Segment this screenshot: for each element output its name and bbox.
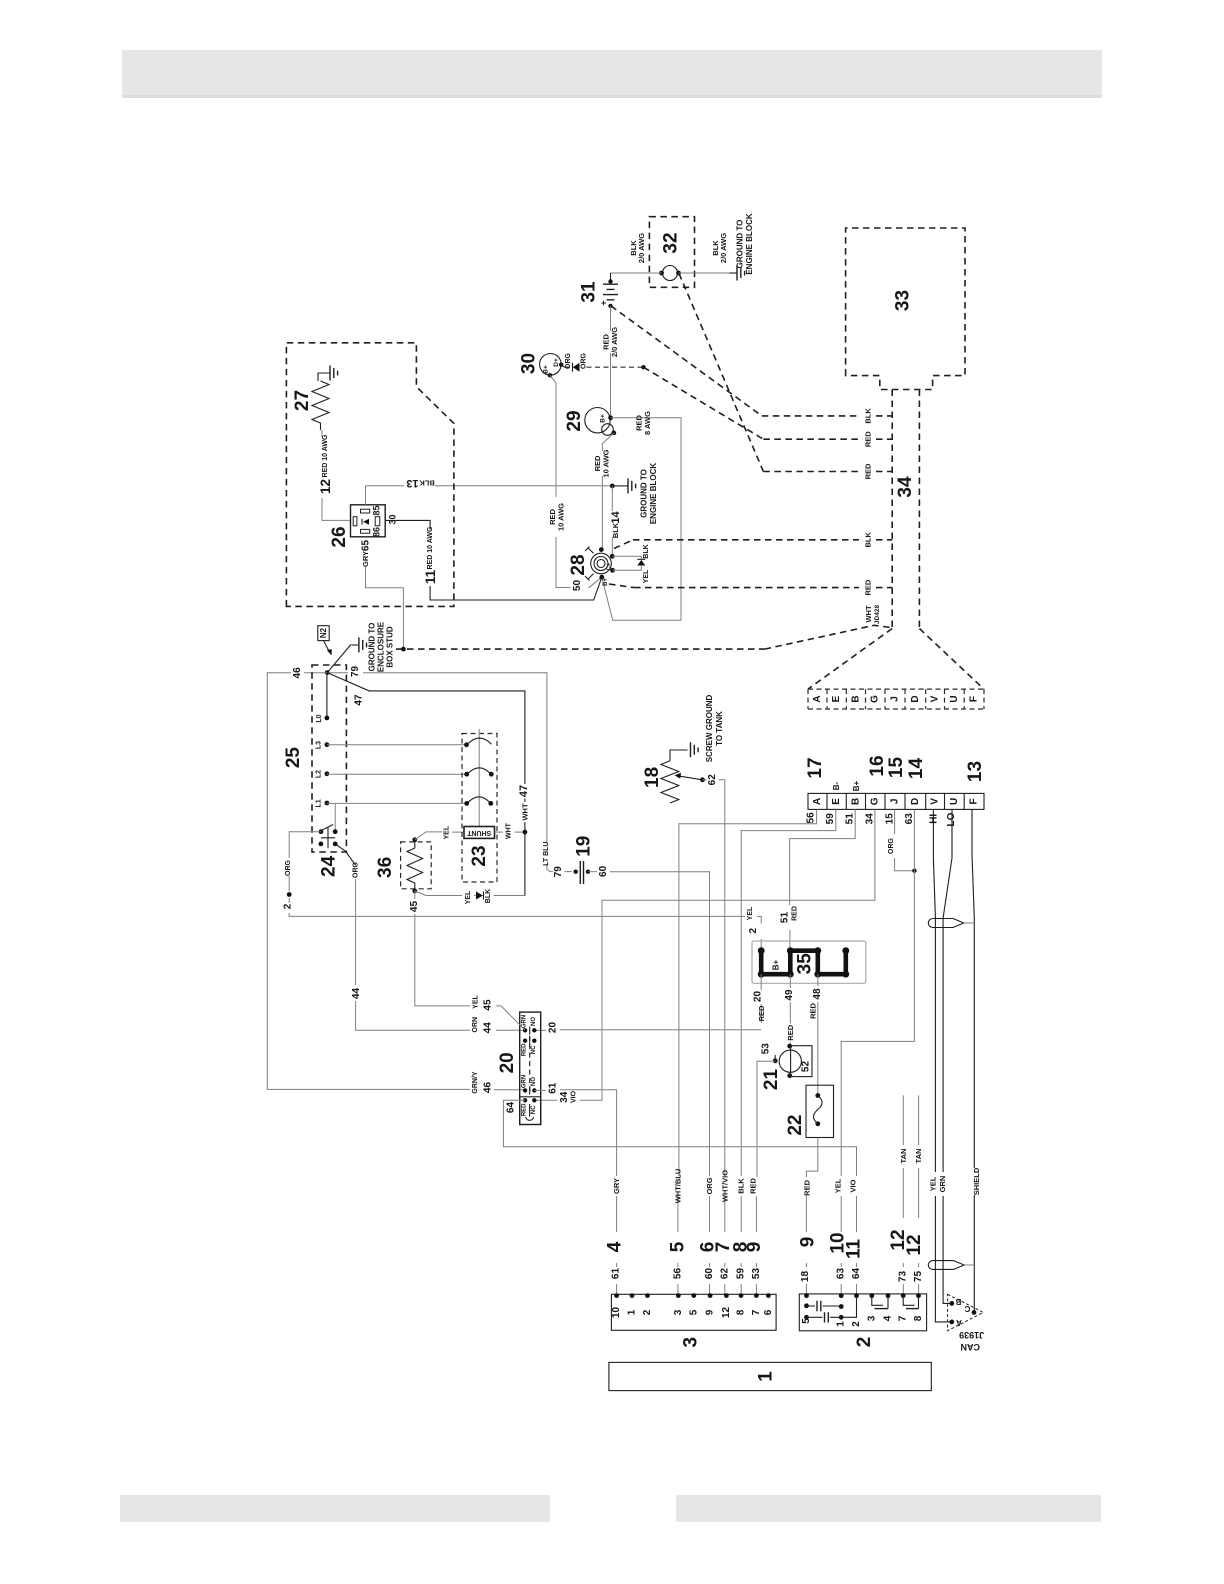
- wire BLK 14 (ground to starter): [610, 486, 622, 556]
- svg-text:18: 18: [642, 767, 663, 788]
- svg-text:RED: RED: [864, 431, 873, 447]
- resistor 36 (dashed box): [375, 837, 431, 893]
- resistor 27 (glow plug): [292, 373, 330, 430]
- wire harness dashed RED (32 to 34): [679, 274, 892, 480]
- svg-text:TAN: TAN: [914, 1149, 923, 1164]
- svg-text:7: 7: [713, 1242, 734, 1253]
- wire 12 RED 10 AWG (27 to relay 26): [318, 430, 351, 520]
- component 32 dashed box: [649, 217, 694, 288]
- ground (enclosure box stud): [352, 621, 395, 672]
- svg-text:22: 22: [785, 1115, 806, 1136]
- wire HI (pin V to CAN A): [928, 809, 952, 1322]
- svg-text:RED: RED: [522, 1103, 528, 1116]
- svg-text:11: 11: [423, 569, 438, 584]
- svg-text:RED: RED: [757, 1005, 766, 1021]
- svg-text:RED: RED: [786, 1024, 795, 1040]
- flasher 22: [785, 1085, 833, 1137]
- svg-text:A: A: [812, 695, 823, 702]
- svg-text:12: 12: [721, 1307, 732, 1319]
- svg-text:YEL: YEL: [834, 1178, 843, 1193]
- svg-text:TAN: TAN: [899, 1149, 908, 1164]
- svg-text:JD428: JD428: [874, 605, 881, 625]
- svg-text:ORG: ORG: [581, 352, 588, 369]
- svg-text:59: 59: [825, 813, 836, 825]
- svg-text:60: 60: [598, 865, 609, 877]
- svg-text:20: 20: [547, 1022, 558, 1034]
- svg-text:64: 64: [851, 1268, 862, 1280]
- connector 1: [609, 1362, 931, 1390]
- shunt (in 23): [464, 827, 495, 839]
- svg-text:TO TANK: TO TANK: [715, 711, 724, 746]
- switch box 25 (dashed): [283, 665, 346, 852]
- svg-text:RED: RED: [864, 579, 873, 595]
- svg-text:ORG: ORG: [285, 859, 292, 876]
- footer bar left: [120, 1495, 550, 1522]
- svg-text:12: 12: [904, 1234, 925, 1255]
- svg-text:85: 85: [372, 505, 382, 515]
- dashed boundary box (27/26 harness): [286, 343, 454, 607]
- svg-text:YEL: YEL: [473, 994, 480, 1008]
- ground (27): [330, 366, 338, 381]
- svg-text:2: 2: [283, 903, 294, 909]
- alternator 30: [519, 353, 564, 378]
- starter 28: [568, 547, 615, 586]
- wire 63 (pin D to connector 2): [828, 809, 916, 1295]
- connector 2: [799, 1293, 926, 1347]
- svg-text:33: 33: [893, 290, 914, 311]
- svg-text:24: 24: [319, 855, 340, 877]
- svg-text:30: 30: [388, 514, 398, 524]
- svg-text:4: 4: [883, 1315, 894, 1321]
- svg-text:B+: B+: [543, 365, 550, 374]
- ground (18): [691, 695, 725, 763]
- svg-text:YEL: YEL: [747, 906, 754, 920]
- svg-text:19: 19: [573, 836, 594, 857]
- svg-text:L3: L3: [316, 741, 323, 749]
- svg-text:GRY: GRY: [612, 1178, 621, 1194]
- bus bar 35: [752, 941, 866, 983]
- diode YEL/BLK (36 to 47 line): [415, 889, 525, 905]
- svg-text:26: 26: [329, 526, 350, 547]
- svg-text:65: 65: [361, 540, 372, 552]
- svg-text:L1: L1: [316, 799, 323, 807]
- svg-text:NC: NC: [531, 1045, 537, 1054]
- svg-text:+: +: [599, 300, 609, 305]
- wire harness dashed WHT JD428 (enclosure ground to 34): [396, 605, 891, 650]
- svg-text:BLK: BLK: [864, 408, 873, 424]
- svg-text:2/0 AWG: 2/0 AWG: [637, 233, 646, 263]
- svg-text:U: U: [949, 798, 960, 805]
- svg-text:14: 14: [906, 758, 927, 780]
- wire 44 ORN (24 to relay 20): [335, 844, 525, 1033]
- svg-text:46: 46: [292, 667, 303, 679]
- svg-text:ENGINE BLOCK: ENGINE BLOCK: [649, 463, 658, 525]
- cable shield bullet (upper): [928, 919, 974, 928]
- svg-text:46: 46: [483, 1082, 494, 1094]
- svg-text:60: 60: [704, 1268, 715, 1280]
- wire BLK 2/0 AWG (32 to ground): [679, 233, 730, 273]
- svg-text:7: 7: [898, 1315, 909, 1321]
- wire WHT (shunt to 47): [495, 822, 528, 839]
- wire 75 TAN (connector 2 pin 8): [904, 1095, 925, 1295]
- svg-text:11: 11: [844, 1239, 865, 1260]
- svg-text:G: G: [870, 797, 881, 805]
- svg-text:6: 6: [763, 1309, 774, 1315]
- svg-text:56: 56: [672, 1268, 683, 1280]
- svg-text:NO: NO: [531, 1077, 537, 1086]
- svg-text:ORN: ORN: [472, 1017, 479, 1033]
- svg-text:ORG: ORG: [565, 352, 572, 369]
- svg-text:61: 61: [611, 1268, 622, 1280]
- svg-text:20: 20: [753, 991, 764, 1003]
- svg-text:2: 2: [748, 927, 759, 933]
- svg-text:SHUNT: SHUNT: [466, 829, 491, 836]
- svg-text:10 AWG: 10 AWG: [602, 449, 611, 477]
- wire YEL (36 to shunt): [415, 825, 464, 840]
- svg-text:BLK: BLK: [737, 1178, 746, 1194]
- svg-text:52: 52: [801, 1061, 812, 1073]
- svg-text:8 AWG: 8 AWG: [643, 411, 652, 435]
- svg-text:34: 34: [895, 476, 916, 498]
- wire L1: [316, 799, 467, 807]
- svg-text:29: 29: [564, 410, 585, 431]
- wire 2 YEL (to 35 B+): [289, 906, 762, 951]
- svg-text:34: 34: [559, 1091, 570, 1103]
- svg-text:2: 2: [854, 1337, 875, 1348]
- node (junction 13/14): [610, 484, 615, 489]
- ground (engine block, center): [612, 463, 658, 525]
- connector 17/16/15/14/13 strip: [805, 755, 986, 809]
- svg-text:BLK: BLK: [485, 889, 492, 903]
- svg-text:2/0 AWG: 2/0 AWG: [610, 327, 619, 357]
- component 33 dashed box: [846, 228, 965, 390]
- svg-text:YEL: YEL: [643, 569, 650, 583]
- svg-text:13: 13: [406, 477, 418, 489]
- svg-text:RED: RED: [522, 1043, 528, 1056]
- svg-text:WHT: WHT: [521, 803, 530, 820]
- svg-text:3: 3: [681, 1337, 702, 1348]
- wire 64 (relay 20 NC to connector 2): [503, 1100, 864, 1295]
- svg-text:D: D: [910, 695, 921, 702]
- svg-text:B+: B+: [603, 578, 609, 586]
- svg-text:8: 8: [913, 1315, 924, 1321]
- svg-text:V: V: [930, 695, 941, 702]
- cable shield bullet (lower): [928, 1261, 974, 1270]
- wire harness dashed RED (starter box to 34): [609, 579, 892, 595]
- svg-text:75: 75: [913, 1271, 924, 1283]
- fuel sender 18: [642, 750, 705, 803]
- wire harness dashed BLK (battery to 34): [611, 306, 892, 424]
- wire harness dashed BLK (starter box to 34): [614, 532, 892, 549]
- svg-text:HI: HI: [928, 814, 939, 824]
- wire SHIELD (pin F to CAN C): [972, 809, 981, 1312]
- svg-text:64: 64: [505, 1102, 516, 1114]
- svg-text:36: 36: [375, 857, 396, 878]
- svg-text:U: U: [949, 695, 960, 702]
- wire 53 RED (21 to connector 3): [744, 1061, 775, 1295]
- svg-text:V: V: [930, 798, 941, 805]
- svg-text:L0: L0: [316, 714, 323, 722]
- svg-text:GRN/Y: GRN/Y: [472, 1071, 479, 1094]
- switch 24: [319, 803, 340, 877]
- svg-text:J: J: [890, 799, 901, 805]
- svg-text:B+: B+: [600, 414, 607, 423]
- svg-text:4: 4: [605, 1241, 626, 1252]
- svg-text:32: 32: [661, 232, 682, 253]
- svg-text:79: 79: [350, 666, 361, 678]
- box 52 (relay 21 coil): [791, 1046, 812, 1077]
- svg-text:RED 10 AWG: RED 10 AWG: [427, 526, 434, 569]
- svg-text:53: 53: [761, 1043, 772, 1055]
- wire 20 RED (35 to relay 20): [534, 974, 766, 1033]
- svg-text:E: E: [831, 695, 842, 702]
- svg-text:10 AWG: 10 AWG: [557, 503, 566, 531]
- svg-text:WHT/BLU: WHT/BLU: [673, 1169, 682, 1204]
- svg-text:5: 5: [801, 1318, 812, 1324]
- svg-text:15: 15: [885, 813, 896, 825]
- svg-text:F: F: [969, 798, 980, 804]
- wire L2: [316, 770, 467, 778]
- svg-text:SHIELD: SHIELD: [972, 1167, 981, 1195]
- svg-text:BLK: BLK: [643, 544, 650, 558]
- wire 11 RED 10 AWG (26 pin 30 to starter B+): [385, 520, 602, 600]
- svg-text:D+: D+: [553, 358, 560, 367]
- svg-text:RED: RED: [749, 1178, 758, 1194]
- svg-text:63: 63: [904, 813, 915, 825]
- wire BLK 13 (relay 26 to engine ground): [366, 477, 613, 489]
- wire GRY 65 (26 pin 86 to enclosure ground): [361, 537, 406, 652]
- svg-text:YEL: YEL: [465, 890, 472, 904]
- svg-text:C: C: [964, 1304, 970, 1313]
- svg-text:RED: RED: [802, 1179, 811, 1195]
- svg-text:BLK: BLK: [864, 532, 873, 548]
- diode YEL/BLK (starter stubs): [612, 544, 650, 583]
- svg-text:B+: B+: [852, 780, 861, 791]
- svg-text:25: 25: [283, 747, 304, 769]
- svg-text:7: 7: [751, 1309, 762, 1315]
- svg-text:51: 51: [780, 912, 791, 924]
- svg-text:YEL: YEL: [443, 825, 450, 839]
- svg-text:E: E: [831, 798, 842, 805]
- svg-text:50: 50: [572, 580, 583, 592]
- svg-text:53: 53: [751, 1268, 762, 1280]
- svg-text:A: A: [812, 798, 823, 805]
- svg-text:61: 61: [547, 1082, 558, 1094]
- svg-text:17: 17: [805, 757, 826, 778]
- wire 15 ORG (pin J to node on 63): [885, 809, 917, 873]
- svg-text:86: 86: [372, 527, 382, 537]
- wire (26 pin 85 up to 13): [365, 486, 367, 505]
- wire 59 (pin E to connector 3): [731, 809, 836, 1295]
- svg-text:G: G: [870, 695, 881, 703]
- svg-text:13: 13: [965, 761, 986, 782]
- svg-text:14: 14: [610, 511, 622, 524]
- svg-text:WHT: WHT: [864, 605, 873, 622]
- svg-text:27: 27: [292, 390, 313, 411]
- svg-text:D: D: [910, 798, 921, 805]
- svg-text:VIO: VIO: [849, 1179, 858, 1192]
- svg-text:18: 18: [800, 1271, 811, 1283]
- svg-text:3: 3: [673, 1309, 684, 1315]
- svg-text:44: 44: [483, 1022, 494, 1034]
- relay 26: [329, 505, 398, 548]
- svg-text:ORG: ORG: [888, 837, 895, 854]
- svg-text:J1939: J1939: [959, 1330, 984, 1340]
- svg-text:GROUND TO: GROUND TO: [368, 623, 377, 672]
- svg-text:63: 63: [836, 1268, 847, 1280]
- svg-text:B: B: [850, 798, 861, 805]
- svg-text:12: 12: [318, 479, 333, 494]
- svg-text:BOX STUD: BOX STUD: [386, 626, 395, 668]
- connector 34 cell strip (dashed A-F): [808, 689, 984, 709]
- svg-text:CAN: CAN: [960, 1342, 980, 1352]
- svg-text:28: 28: [568, 554, 589, 575]
- capacitor 19: [573, 836, 594, 884]
- svg-text:GROUND TO: GROUND TO: [640, 469, 649, 518]
- wire L3: [316, 741, 467, 749]
- svg-text:GRN: GRN: [522, 1015, 528, 1028]
- svg-text:20: 20: [497, 1052, 518, 1073]
- svg-text:RED 10 AWG: RED 10 AWG: [322, 434, 329, 477]
- svg-text:B: B: [955, 1297, 961, 1306]
- svg-text:15: 15: [886, 757, 907, 779]
- wire 61 GRY (relay 20 to connector 3): [534, 1082, 625, 1295]
- wire 79 (N2 to capacitor 19): [327, 666, 572, 878]
- svg-text:47: 47: [518, 785, 530, 797]
- switch N2: [318, 626, 351, 675]
- svg-text:49: 49: [784, 989, 795, 1001]
- svg-text:59: 59: [736, 1268, 747, 1280]
- svg-text:8: 8: [736, 1309, 747, 1315]
- svg-text:LO: LO: [946, 812, 957, 826]
- svg-text:F: F: [969, 696, 980, 702]
- svg-text:GRN: GRN: [938, 1176, 947, 1193]
- battery 31: [579, 273, 619, 308]
- svg-text:WHT/VIO: WHT/VIO: [720, 1170, 729, 1202]
- wire BLK 2/0 AWG (battery to 32): [611, 233, 662, 273]
- svg-text:BLK: BLK: [611, 522, 620, 538]
- wire 47 WHT (N2 to shunt): [327, 673, 530, 896]
- svg-text:GROUND TO: GROUND TO: [736, 220, 745, 269]
- svg-text:LT BLU: LT BLU: [543, 842, 550, 866]
- svg-text:ORG: ORG: [353, 861, 360, 878]
- wire LO (pin U to CAN B): [938, 809, 957, 1303]
- wire 60 (19 to connector 3): [588, 865, 719, 1295]
- wire RED 10 AWG (29 to starter top): [593, 433, 614, 550]
- wire 46 (N2 to relay 20): [267, 667, 525, 1094]
- svg-text:BLK: BLK: [419, 478, 435, 487]
- svg-text:C+: C+: [607, 562, 613, 570]
- svg-text:9: 9: [798, 1237, 819, 1248]
- svg-text:73: 73: [898, 1271, 909, 1283]
- horn relay 21: [761, 1043, 802, 1090]
- svg-text:31: 31: [579, 281, 600, 303]
- svg-text:44: 44: [351, 988, 362, 1000]
- svg-text:GRY: GRY: [361, 551, 370, 567]
- harness 34 dashed column: [892, 390, 919, 629]
- svg-text:21: 21: [761, 1069, 782, 1091]
- wire 62 (18 to connector 3): [703, 774, 735, 1296]
- svg-text:35: 35: [795, 953, 816, 975]
- svg-text:1: 1: [836, 1321, 847, 1327]
- wire 56 (pin A to connector 3): [667, 809, 816, 1295]
- svg-text:62: 62: [719, 1268, 730, 1280]
- wire RED 8 AWG (29 B+ to starter B+): [602, 411, 681, 620]
- svg-text:79: 79: [553, 866, 564, 878]
- svg-text:A: A: [956, 1318, 962, 1327]
- wire RED 2/0 AWG (battery to alternator B+): [602, 306, 620, 418]
- svg-text:ORG: ORG: [705, 1177, 714, 1194]
- svg-text:RED: RED: [792, 906, 799, 921]
- svg-text:WHT: WHT: [505, 822, 512, 839]
- svg-text:30: 30: [519, 353, 540, 374]
- wire ORG (24 to wire 2): [283, 832, 321, 917]
- svg-text:ENCLOSURE: ENCLOSURE: [377, 621, 386, 672]
- svg-text:3: 3: [866, 1315, 877, 1321]
- circuit breaker 23 (dashed box): [462, 729, 497, 882]
- svg-text:YEL: YEL: [929, 1176, 938, 1191]
- svg-text:48: 48: [812, 988, 823, 1000]
- wire 73 TAN (connector 2 pin 7): [888, 1095, 909, 1295]
- svg-text:1: 1: [756, 1371, 777, 1382]
- svg-text:56: 56: [806, 812, 817, 824]
- wire 48 RED (35 to flasher 22): [809, 974, 824, 1095]
- wire 50 (from 30 B+ down): [548, 375, 602, 591]
- relay 20: [497, 1012, 541, 1124]
- CAN J1939 connector: [948, 1294, 985, 1352]
- header bar: [122, 50, 1102, 97]
- wire 34 VIO (pin G to relay 20 NC): [534, 809, 875, 1103]
- svg-text:ENGINE BLOCK: ENGINE BLOCK: [745, 213, 754, 275]
- wire harness dashed RED (node to 34): [644, 367, 893, 447]
- svg-text:45: 45: [409, 901, 420, 913]
- harness 34 funnel: [808, 629, 984, 690]
- svg-text:47: 47: [354, 694, 365, 706]
- svg-text:1: 1: [627, 1309, 638, 1315]
- svg-text:2: 2: [642, 1309, 653, 1315]
- diode ORG (on 30 D+ line): [561, 352, 646, 371]
- svg-text:RED: RED: [809, 1003, 818, 1019]
- svg-text:VIO: VIO: [571, 1090, 578, 1103]
- svg-text:L2: L2: [316, 770, 323, 778]
- svg-text:NC: NC: [531, 1105, 537, 1114]
- svg-text:RED: RED: [864, 463, 873, 479]
- svg-text:5: 5: [688, 1309, 699, 1315]
- svg-text:NO: NO: [531, 1017, 537, 1026]
- svg-text:45: 45: [483, 999, 494, 1011]
- svg-text:23: 23: [469, 845, 490, 866]
- svg-text:10: 10: [611, 1307, 622, 1319]
- wire 51 RED (pin B to 35): [780, 809, 856, 950]
- connector 3: [611, 1293, 776, 1347]
- svg-text:B+: B+: [772, 959, 781, 970]
- svg-text:34: 34: [865, 813, 876, 825]
- svg-text:B-: B-: [832, 781, 841, 790]
- svg-text:2/0 AWG: 2/0 AWG: [719, 233, 728, 263]
- svg-text:2: 2: [851, 1321, 862, 1327]
- svg-text:9: 9: [744, 1242, 765, 1253]
- svg-text:GRN: GRN: [522, 1075, 528, 1088]
- wire 45 YEL (36 to relay 20): [409, 891, 525, 1030]
- node L0: [316, 673, 329, 723]
- wire 49 RED (35 to relay 21): [784, 974, 795, 1046]
- svg-text:N2: N2: [319, 627, 328, 638]
- svg-text:51: 51: [845, 813, 856, 825]
- svg-text:B: B: [850, 695, 861, 702]
- svg-text:9: 9: [705, 1309, 716, 1315]
- svg-text:62: 62: [707, 774, 718, 786]
- svg-text:J: J: [890, 696, 901, 702]
